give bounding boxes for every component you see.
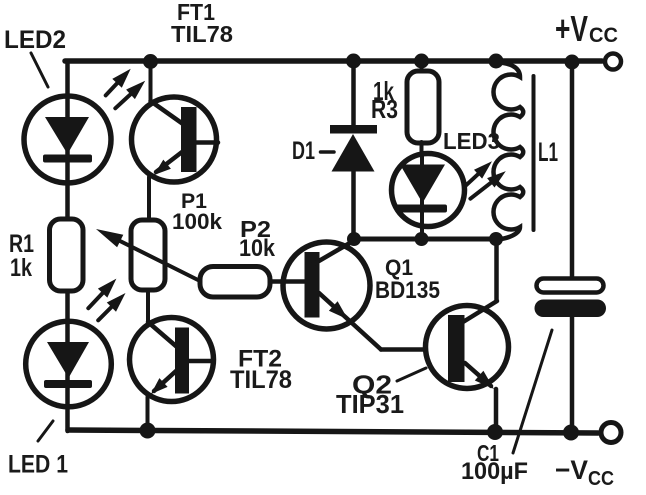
- leader dash D1: [321, 150, 335, 154]
- wire middle rail node D1-L1: [354, 237, 496, 242]
- svg-text:100µF: 100µF: [461, 458, 528, 485]
- wire Q2 emitter down to bottom rail: [494, 389, 499, 432]
- FT1 emitter arrowhead: [154, 160, 171, 175]
- LED2: [24, 96, 111, 183]
- transistor Q2: [426, 301, 509, 389]
- svg-text:LED2: LED2: [4, 26, 66, 54]
- light arrow LED3 a: [464, 161, 492, 187]
- svg-text:CC: CC: [588, 468, 614, 490]
- FT2 base lead: [189, 359, 212, 364]
- Q2 emitter lead: [465, 363, 491, 386]
- FT2 collector lead: [148, 322, 177, 347]
- svg-text:−V: −V: [555, 455, 588, 485]
- node L1 top: [489, 54, 504, 69]
- leader line LED1: [38, 421, 53, 441]
- resistor R1: [50, 219, 84, 291]
- wire Q2 collector up to middle rail: [494, 239, 499, 301]
- svg-text:1k: 1k: [10, 254, 32, 282]
- FT2 base bar: [175, 328, 189, 394]
- LED1 anode triangle: [47, 342, 89, 378]
- svg-text:100k: 100k: [172, 209, 223, 234]
- FT2 emitter arrowhead: [151, 378, 168, 394]
- Q2 emitter arrowhead: [475, 371, 494, 389]
- FT2 body circle: [130, 318, 214, 402]
- light arrow FT1 b: [115, 81, 145, 109]
- node L1 bottom: [489, 232, 503, 246]
- LED2 anode triangle: [45, 117, 89, 154]
- potentiometer P2: [200, 267, 270, 298]
- wire P1 to FT2 collector: [146, 290, 150, 323]
- svg-text:CC: CC: [589, 24, 618, 47]
- LED3: [392, 153, 465, 239]
- svg-text:TIP31: TIP31: [336, 389, 404, 419]
- phototransistor FT2: [130, 290, 214, 431]
- LED3 body circle: [392, 154, 465, 227]
- Q1 emitter arrowhead: [329, 301, 348, 319]
- wire D1 anode to middle rail node: [351, 170, 356, 239]
- node LED3 bottom: [415, 232, 429, 246]
- Q1 base lead: [281, 279, 305, 284]
- Q2 base bar: [448, 315, 465, 382]
- wire bottom rail: [68, 430, 598, 433]
- LED3 cathode bar: [396, 205, 447, 213]
- svg-text:LED3: LED3: [443, 128, 500, 154]
- wire right rail top to C1: [570, 61, 575, 279]
- LED2 cathode bar: [43, 155, 92, 163]
- node Q2 emitter bottom: [487, 424, 503, 440]
- light arrow LED3 b: [470, 171, 505, 199]
- node FT2 emitter bottom: [140, 423, 156, 439]
- wire node FT1 top to collector: [149, 61, 153, 101]
- wire FT1 emitter to P1: [147, 177, 151, 220]
- LED1 cathode bar: [44, 380, 92, 388]
- inductor L1 coil: [493, 62, 523, 239]
- svg-text:+V: +V: [555, 8, 588, 49]
- svg-text:TIL78: TIL78: [230, 366, 292, 394]
- D1 cathode bar: [330, 125, 377, 134]
- svg-text:BD135: BD135: [375, 277, 440, 304]
- svg-text:D1: D1: [292, 137, 315, 165]
- svg-text:L1: L1: [538, 137, 558, 167]
- wire Q1 emitter to Q2 base: [381, 347, 449, 352]
- FT1 base bar: [181, 107, 197, 172]
- leader line LED2: [31, 53, 48, 87]
- light arrow FT1 a: [106, 69, 131, 96]
- light arrow FT2 b: [98, 293, 125, 320]
- node R3 top: [414, 54, 429, 69]
- light arrow FT2 a: [88, 279, 116, 309]
- svg-text:TIL78: TIL78: [171, 21, 233, 47]
- node D1 bottom: [347, 232, 361, 246]
- leader line Q2: [397, 368, 426, 381]
- capacitor C1 top plate: [537, 279, 604, 293]
- Q1 emitter lead: [319, 293, 381, 350]
- Q2 collector lead: [463, 301, 497, 322]
- wire top rail: [65, 58, 602, 64]
- FT2 emitter lead: [154, 371, 176, 391]
- svg-text:LED 1: LED 1: [8, 451, 68, 479]
- P1 wiper arrow: [108, 235, 204, 283]
- wire P2 to Q1 base: [270, 279, 306, 284]
- diode D1: [330, 61, 377, 239]
- FT1 body circle: [132, 97, 217, 182]
- wire left column LED2-R1-LED1: [65, 61, 70, 431]
- node C1 bottom: [563, 425, 579, 441]
- terminal -Vcc: [601, 423, 621, 443]
- Q1 collector lead to node: [312, 240, 355, 265]
- inductor L1 core line: [532, 76, 536, 230]
- FT1 collector lead: [151, 101, 184, 124]
- wire top rail to R3: [420, 61, 424, 72]
- transistor Q1: [281, 240, 381, 350]
- Q2 body circle: [426, 306, 509, 389]
- FT1 emitter lead: [156, 152, 182, 172]
- Q1 base bar: [305, 252, 320, 318]
- wire R3 through LED3 to middle rail: [420, 153, 424, 239]
- node D1 top: [346, 54, 361, 69]
- resistor R3: [407, 71, 439, 143]
- wire R3 to LED3: [420, 142, 424, 153]
- node FT1 top: [143, 54, 158, 69]
- D1 anode triangle: [332, 134, 375, 172]
- wire top rail to D1 cathode: [351, 61, 356, 126]
- svg-text:10k: 10k: [239, 235, 276, 262]
- FT1 base lead: [196, 140, 218, 145]
- Q1 body circle: [283, 242, 370, 329]
- leader line C1: [513, 330, 552, 453]
- LED3 anode triangle: [400, 165, 445, 204]
- phototransistor FT1: [132, 61, 219, 220]
- terminal +Vcc: [605, 54, 621, 70]
- node right rail top: [565, 55, 580, 70]
- LED1: [26, 321, 112, 407]
- potentiometer P1: [131, 220, 165, 290]
- svg-text:R3: R3: [371, 94, 398, 124]
- capacitor C1 bottom plate: [535, 300, 607, 318]
- wire FT2 emitter to bottom rail: [146, 397, 150, 431]
- wire C1 to bottom rail: [570, 317, 575, 432]
